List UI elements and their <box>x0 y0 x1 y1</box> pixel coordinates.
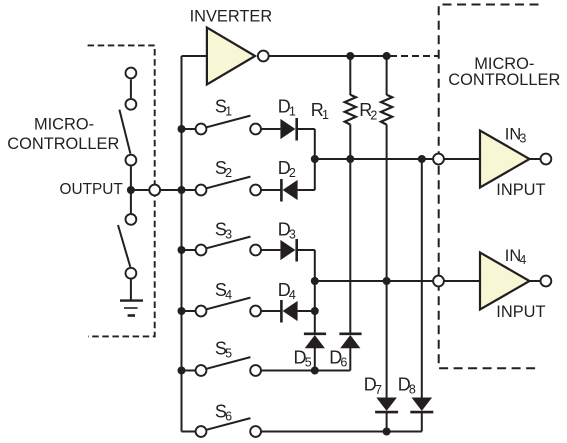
svg-text:CONTROLLER: CONTROLLER <box>7 135 119 153</box>
svg-text:CONTROLLER: CONTROLLER <box>448 71 560 89</box>
svg-text:OUTPUT: OUTPUT <box>60 181 124 198</box>
svg-text:INVERTER: INVERTER <box>190 8 273 26</box>
svg-text:INPUT: INPUT <box>496 181 545 199</box>
svg-text:INPUT: INPUT <box>496 303 545 321</box>
svg-text:MICRO-: MICRO- <box>34 116 94 134</box>
